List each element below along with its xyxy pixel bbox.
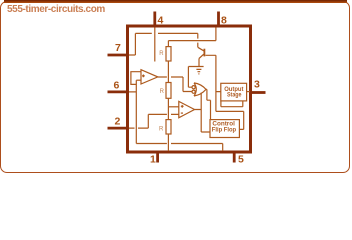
IC package box [128, 26, 251, 152]
plus sign U2 [181, 105, 184, 108]
svg-text:6: 6 [114, 80, 120, 92]
resistor R1 [166, 47, 171, 61]
pin 2 lead [108, 127, 129, 130]
resistor R2 [166, 83, 171, 99]
transistor Q1 [198, 47, 205, 66]
pin 1 lead [156, 153, 159, 163]
wire transistor base to output stage and flip flop [206, 55, 244, 129]
wire R3 to bottom border [167, 134, 169, 151]
pin 6 lead [108, 91, 129, 94]
wire R1 to R2 [167, 61, 169, 83]
svg-text:R: R [159, 51, 164, 57]
op-amp comparator U1 [141, 70, 158, 84]
wire U1 upper input [131, 72, 141, 85]
wire U1 output to gate lower input [158, 77, 192, 92]
output stage box [221, 83, 247, 101]
svg-text:7: 7 [115, 42, 121, 54]
pin 8 lead [217, 12, 220, 26]
svg-text:4: 4 [158, 15, 164, 27]
wire emitter branch to gate upper input [188, 67, 203, 88]
op-amp comparator U2 [179, 101, 195, 117]
wire R2 to R3 [167, 98, 169, 119]
wire pin4 into package [154, 28, 156, 62]
gate G1 [194, 83, 206, 96]
wire pin2 to comparator2 minus input [129, 114, 179, 128]
svg-text:Flip Flop: Flip Flop [212, 128, 237, 134]
svg-text:5: 5 [238, 154, 244, 166]
svg-text:3: 3 [254, 79, 260, 91]
top dark gradient band [4, 0, 347, 3]
ground [196, 69, 201, 74]
svg-text:8: 8 [221, 15, 227, 27]
svg-text:1: 1 [150, 154, 156, 166]
wire U2 output to gate and flip flop [195, 93, 211, 132]
svg-text:R: R [159, 127, 164, 133]
pin 7 lead [108, 54, 129, 57]
minus sign U2 [181, 112, 183, 114]
wire pin7 to transistor collector [129, 33, 198, 55]
site title [7, 4, 105, 15]
resistor R3 [166, 120, 171, 134]
wire Vcc rail from top border to R1 [168, 28, 216, 47]
pin 3 lead [251, 91, 266, 94]
wire divider node to comparator2 plus input [168, 106, 178, 108]
svg-text:Control: Control [212, 122, 235, 128]
wire output stage to pin 3 [247, 91, 250, 93]
svg-text:R: R [160, 89, 165, 95]
svg-text:2: 2 [115, 116, 121, 128]
control flip flop box [210, 120, 239, 138]
pin 4 lead [153, 12, 156, 26]
wire gate output to control flip flop [206, 89, 211, 119]
wire pin6 net [129, 80, 223, 151]
wire loop under output stage [221, 101, 243, 107]
pin 5 lead [233, 153, 236, 163]
wire U1 lower input [136, 79, 141, 81]
gate input bubble upper [192, 86, 195, 89]
outer rounded frame [0, 1, 350, 173]
svg-text:Stage: Stage [227, 93, 242, 99]
gate input bubble lower [192, 90, 195, 93]
plus sign U1 [142, 75, 145, 78]
